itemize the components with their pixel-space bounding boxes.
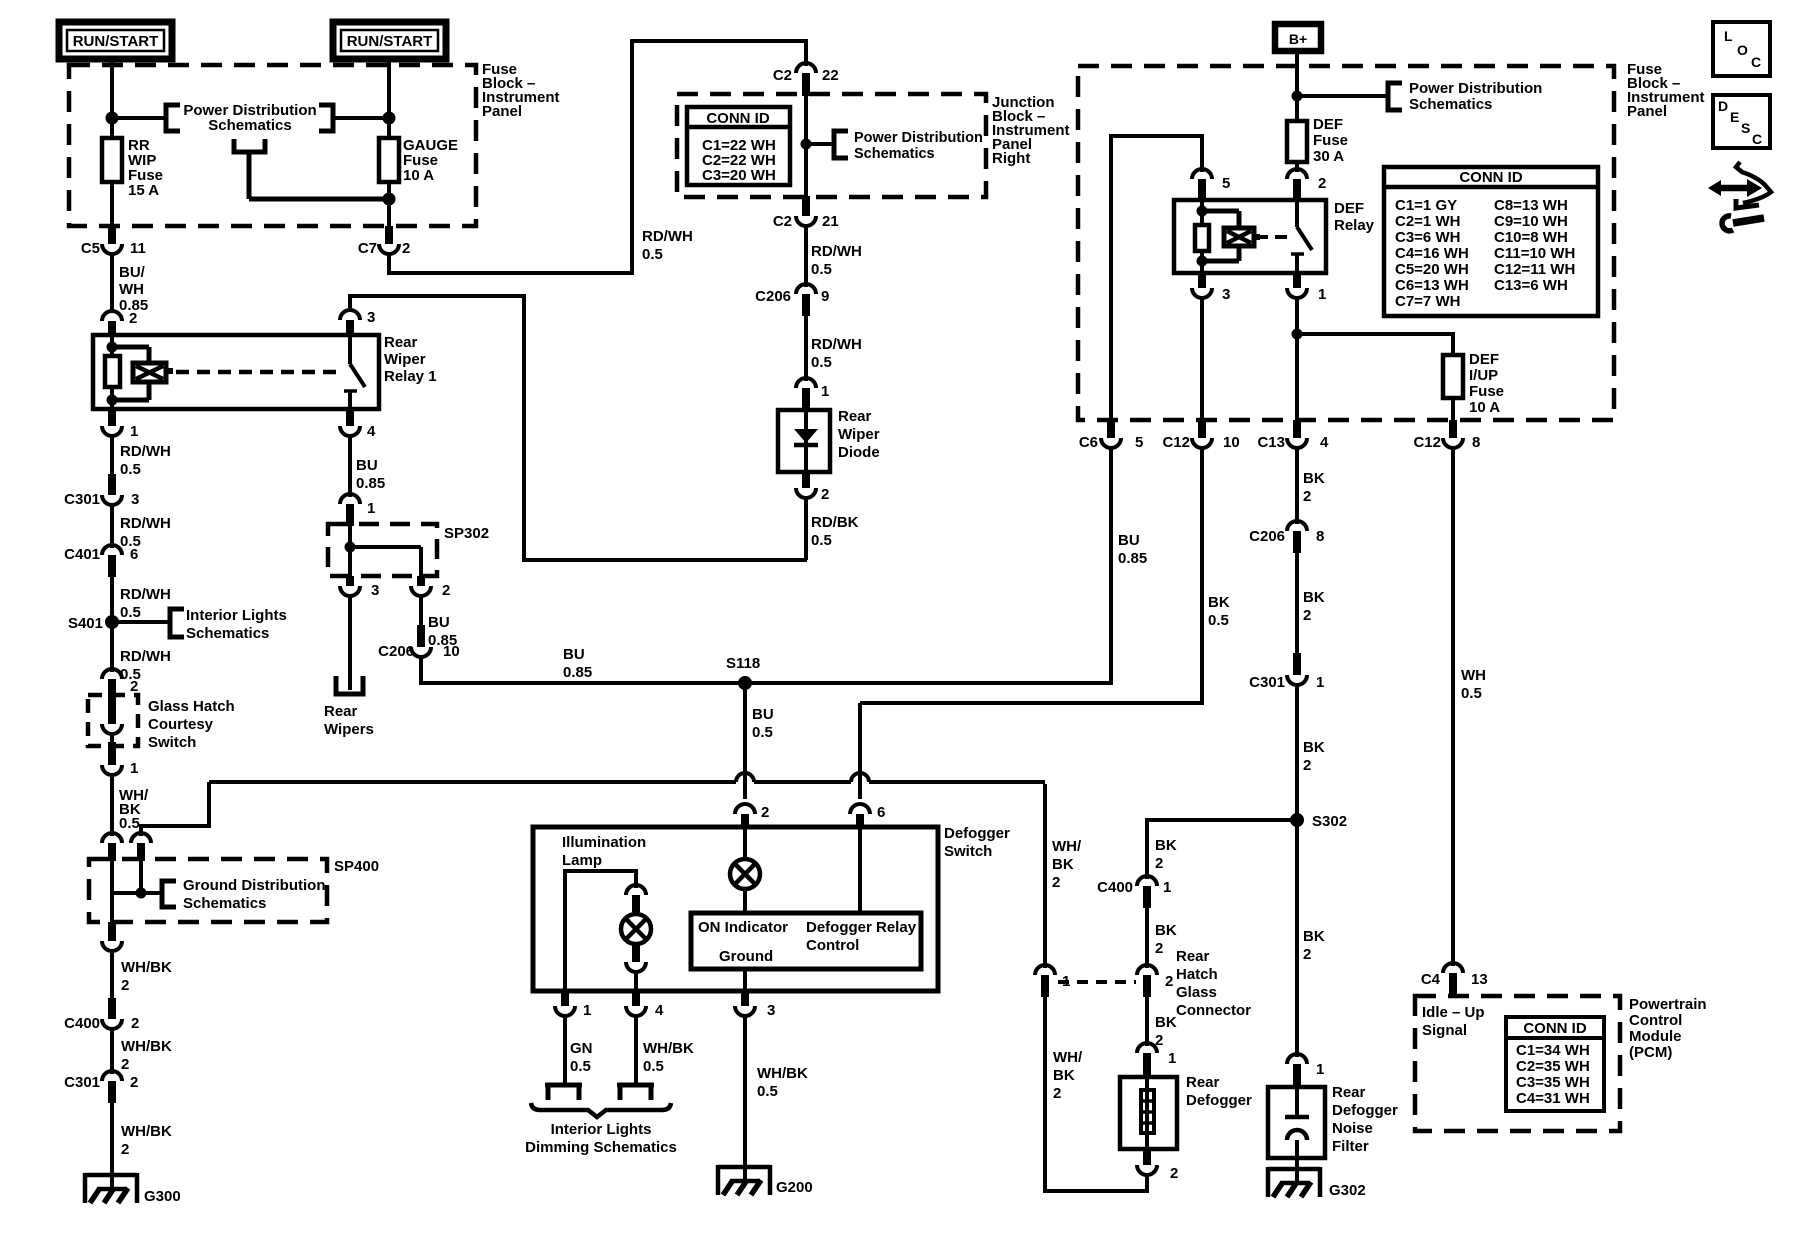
svg-text:C5: C5: [81, 240, 100, 257]
svg-text:0.85: 0.85: [1118, 550, 1147, 567]
wire DEF relay pin 1 down: [1295, 296, 1299, 422]
svg-text:BK: BK: [1052, 856, 1074, 873]
wire C2-22 through junction block: [804, 94, 808, 215]
svg-text:C206: C206: [755, 288, 791, 305]
connector C5 pin 11: [81, 226, 146, 257]
connector DEF relay pin 3: [1192, 273, 1230, 303]
connector rear defogger pin 1: [1137, 1043, 1176, 1078]
relay coil resistor: [105, 356, 120, 387]
label Rear Wipers: [324, 703, 374, 738]
wire rear hatch pin2 to rear defogger: [1145, 997, 1149, 1046]
wire RUN/START2 to GAUGE fuse: [387, 59, 391, 140]
svg-text:2: 2: [130, 678, 138, 695]
svg-text:Switch: Switch: [148, 734, 196, 751]
svg-text:Panel: Panel: [482, 103, 522, 120]
svg-text:C4: C4: [1421, 971, 1441, 988]
svg-text:RD/WH: RD/WH: [642, 228, 693, 245]
label DEF Relay: [1334, 200, 1375, 234]
svg-text:C2: C2: [773, 213, 792, 230]
svg-text:C9=10 WH: C9=10 WH: [1494, 213, 1568, 230]
conn id rows (junction block): [702, 137, 776, 184]
svg-text:Rear: Rear: [1332, 1084, 1366, 1101]
wire C13-4 to C206-8: [1295, 446, 1299, 524]
wire relay pin4 to SP302: [348, 434, 352, 497]
module Powertrain Control Module dashed box: [1415, 996, 1620, 1131]
node SP400 junction dot: [136, 888, 147, 899]
splice SP302 dashed box: [328, 524, 437, 576]
SP400 internal wires: [112, 861, 162, 922]
label SP302: [444, 525, 489, 542]
svg-text:Glass Hatch: Glass Hatch: [148, 698, 235, 715]
svg-text:1: 1: [1316, 1061, 1324, 1078]
svg-text:5: 5: [1135, 434, 1143, 451]
svg-text:Noise: Noise: [1332, 1120, 1373, 1137]
wire splice to DEF I/UP fuse: [1297, 332, 1453, 355]
svg-text:C3=6 WH: C3=6 WH: [1395, 229, 1460, 246]
svg-text:4: 4: [1320, 434, 1329, 451]
svg-text:Schematics: Schematics: [186, 625, 269, 642]
svg-text:WH/BK: WH/BK: [643, 1040, 694, 1057]
svg-text:0.5: 0.5: [757, 1083, 778, 1100]
wire rear defogger pin2 return loop: [1045, 997, 1149, 1193]
svg-text:Filter: Filter: [1332, 1138, 1369, 1155]
svg-text:WH/: WH/: [1053, 1049, 1083, 1066]
connector defogger pin 3: [735, 991, 775, 1019]
wire C206-8 to C301-1: [1295, 553, 1299, 655]
wire junction to left bracket: [112, 116, 166, 120]
bracket left of Power Distribution Schematics (left): [166, 105, 180, 131]
svg-text:2: 2: [761, 804, 769, 821]
svg-text:S: S: [1741, 120, 1750, 136]
wire C7 to C2-22 riser: [387, 39, 806, 275]
label ON Indicator: [698, 919, 788, 936]
svg-text:DEF: DEF: [1469, 351, 1499, 368]
svg-text:S302: S302: [1312, 813, 1347, 830]
svg-text:C4=31 WH: C4=31 WH: [1516, 1090, 1590, 1107]
svg-text:Defogger: Defogger: [1186, 1092, 1252, 1109]
svg-text:0.5: 0.5: [811, 261, 832, 278]
svg-text:C2=35 WH: C2=35 WH: [1516, 1058, 1590, 1075]
svg-text:SP302: SP302: [444, 525, 489, 542]
svg-text:Idle – Up: Idle – Up: [1422, 1004, 1485, 1021]
connector relay pin 4: [340, 409, 376, 440]
svg-text:Rear: Rear: [838, 408, 872, 425]
terminal Rear Wipers: [336, 676, 363, 694]
wire defogger return to rear hatch pin1: [1043, 784, 1047, 968]
terminal interior lights (pin1): [545, 1085, 582, 1100]
svg-text:Fuse: Fuse: [1469, 383, 1504, 400]
wire ON lamp to inner box: [743, 889, 747, 913]
wire bracket to GAUGE fuse feed: [333, 116, 389, 120]
wire ground to defogger pin 3: [743, 969, 747, 991]
label wire BU 0.5: [752, 706, 774, 741]
svg-text:Control: Control: [1629, 1012, 1682, 1029]
svg-text:C: C: [1751, 54, 1761, 70]
svg-text:BU: BU: [752, 706, 774, 723]
svg-text:C3=20 WH: C3=20 WH: [702, 167, 776, 184]
label wire WH/BK 0.5 (pin3): [757, 1065, 808, 1100]
svg-text:C206: C206: [378, 643, 414, 660]
svg-text:2: 2: [821, 486, 829, 503]
hop defogger pin2 wire: [736, 773, 754, 782]
svg-text:G302: G302: [1329, 1182, 1366, 1199]
label wire WH 0.5: [1461, 667, 1486, 702]
label wire BU 0.85 (sp302 pin2): [428, 614, 457, 649]
svg-text:Defogger: Defogger: [944, 825, 1010, 842]
label wire RD/WH 0.5 (a): [120, 443, 171, 478]
relay solenoid branch: [112, 347, 149, 400]
wire S302 branch to C400: [1147, 818, 1297, 879]
svg-text:2: 2: [1318, 175, 1326, 192]
label wire RD/WH 0.5 (c): [120, 586, 171, 621]
svg-text:2: 2: [131, 1015, 139, 1032]
svg-text:10: 10: [443, 643, 460, 660]
rear defogger grid element: [1141, 1077, 1154, 1149]
node B+ splice dot: [1292, 91, 1303, 102]
svg-text:30 A: 30 A: [1313, 148, 1344, 165]
svg-text:Diode: Diode: [838, 444, 880, 461]
DEF relay control dashed link: [1256, 235, 1290, 239]
svg-text:2: 2: [1170, 1165, 1178, 1182]
connector diode pin 1: [796, 378, 829, 411]
connector defogger pin 1: [555, 991, 591, 1019]
wire C301 to C401: [110, 503, 114, 548]
wire C2-21 to C206-9: [804, 224, 808, 287]
ground G200: [718, 1165, 813, 1196]
svg-text:C13=6 WH: C13=6 WH: [1494, 277, 1568, 294]
label wire RD/WH 0.5 (C2-21): [811, 243, 862, 278]
connector relay pin 1: [102, 409, 138, 440]
svg-text:WH/BK: WH/BK: [121, 1038, 172, 1055]
svg-text:8: 8: [1316, 528, 1324, 545]
svg-text:WH/BK: WH/BK: [757, 1065, 808, 1082]
svg-text:BK: BK: [1303, 739, 1325, 756]
node junction dot on RR WIP feed: [106, 112, 119, 125]
wire defogger pin6 to inner box: [858, 829, 862, 913]
svg-text:2: 2: [1155, 940, 1163, 957]
bracket ground distribution schematics: [162, 881, 176, 907]
connector C206 pin 9: [755, 284, 829, 316]
connector C301 pin 2: [64, 1071, 138, 1103]
svg-text:C10=8 WH: C10=8 WH: [1494, 229, 1568, 246]
label Power Distribution Schematics (right): [1409, 80, 1542, 113]
label wire RD/WH 0.5 (b): [120, 515, 171, 550]
label Interior Lights Dimming Schematics: [525, 1121, 677, 1156]
conn id rows (PCM): [1516, 1042, 1590, 1107]
svg-text:2: 2: [121, 977, 129, 994]
label RR WIP Fuse 15 A: [128, 137, 163, 199]
fuse DEF 30A: [1287, 121, 1307, 162]
icon DESC box: [1713, 95, 1770, 148]
svg-text:0.85: 0.85: [563, 664, 592, 681]
svg-text:Ground: Ground: [719, 948, 773, 965]
svg-text:2: 2: [129, 310, 137, 327]
svg-text:C3=35 WH: C3=35 WH: [1516, 1074, 1590, 1091]
svg-text:0.5: 0.5: [570, 1058, 591, 1075]
svg-text:BK: BK: [1155, 922, 1177, 939]
svg-text:2: 2: [1303, 607, 1311, 624]
svg-text:BK: BK: [1155, 1014, 1177, 1031]
label Ground: [719, 948, 773, 965]
label Rear Wiper Relay 1: [384, 334, 437, 385]
wire S401 to interior lights bracket: [112, 620, 170, 624]
svg-text:C401: C401: [64, 546, 100, 563]
node junction dot on GAUGE feed: [383, 112, 396, 125]
node relay coil top junction: [107, 342, 118, 353]
connector C4 pin 13: [1421, 963, 1488, 998]
svg-text:C12: C12: [1162, 434, 1190, 451]
svg-text:21: 21: [822, 213, 839, 230]
label wire WH/BK 2 (return upper): [1052, 838, 1082, 891]
ground G300: [85, 1173, 181, 1205]
label wire WH/BK 2 (a): [121, 959, 172, 994]
connector defogger pin 6: [850, 804, 885, 829]
svg-text:1: 1: [821, 383, 829, 400]
connector C206 pin 8: [1249, 521, 1324, 553]
svg-text:Hatch: Hatch: [1176, 966, 1218, 983]
connector SP302 pin 2: [411, 576, 450, 599]
label wire WH/BK 0.5 (pin4): [643, 1040, 694, 1075]
svg-text:Dimming Schematics: Dimming Schematics: [525, 1139, 677, 1156]
svg-text:RD/WH: RD/WH: [811, 243, 862, 260]
connector rear hatch glass pin 1: [1035, 965, 1070, 997]
DEF relay coil feed: [1200, 200, 1204, 273]
svg-text:0.5: 0.5: [120, 604, 141, 621]
wire DEF fuse to relay pin 2: [1295, 160, 1299, 172]
wire S401 to glass hatch switch: [110, 622, 114, 672]
svg-text:1: 1: [1168, 1050, 1176, 1067]
wire C400-1 to rear hatch pin 2: [1145, 908, 1149, 968]
svg-text:Right: Right: [992, 150, 1030, 167]
wire relay pin1 to C301: [110, 434, 114, 476]
switch Glass Hatch Courtesy Switch dashed box: [88, 695, 138, 746]
wire SP302 pin3 to rear wipers: [348, 594, 352, 690]
wire DEF I/UP fuse to C12-8: [1451, 398, 1455, 422]
svg-text:C400: C400: [1097, 879, 1133, 896]
svg-text:DEF: DEF: [1313, 116, 1343, 133]
svg-text:Rear: Rear: [384, 334, 418, 351]
svg-text:C7: C7: [358, 240, 377, 257]
svg-text:2: 2: [121, 1056, 129, 1073]
svg-text:C12=11 WH: C12=11 WH: [1494, 261, 1575, 278]
connector C206 pin 10: [378, 625, 460, 660]
node SP302 junction dot: [345, 542, 356, 553]
label wire RD/BK 0.5: [811, 514, 859, 549]
connector DEF relay pin 5: [1192, 169, 1230, 201]
fuse GAUGE 10A: [379, 138, 399, 182]
label Fuse Block - Instrument Panel (right): [1627, 61, 1705, 120]
label wire BU 0.85 (relay pin4): [356, 457, 385, 492]
node DEF relay top junction: [1197, 206, 1208, 217]
connector SP400 pin left: [102, 833, 122, 861]
label Glass Hatch Courtesy Switch: [148, 698, 235, 751]
svg-text:3: 3: [371, 582, 379, 599]
fuse block - instrument panel dashed box (left): [69, 65, 476, 226]
svg-text:C5=20 WH: C5=20 WH: [1395, 261, 1469, 278]
svg-text:BK: BK: [1155, 837, 1177, 854]
node S302 splice: [1290, 813, 1347, 830]
svg-text:3: 3: [767, 1002, 775, 1019]
connector SP302 pin 3: [340, 576, 379, 599]
icon LOC box: [1713, 22, 1770, 76]
connector below SP400: [102, 922, 122, 951]
svg-text:WH/BK: WH/BK: [121, 959, 172, 976]
node DEF output splice: [1292, 329, 1303, 340]
svg-text:Interior Lights: Interior Lights: [551, 1121, 652, 1138]
wire S302 to noise filter: [1295, 820, 1299, 1057]
power feed RUN/START box 1: [59, 22, 172, 59]
bracket right of Power Distribution Schematics (left): [319, 105, 333, 131]
svg-text:Power Distribution: Power Distribution: [1409, 80, 1542, 97]
svg-text:2: 2: [130, 1074, 138, 1091]
conn id table (fuse block right): [1384, 167, 1598, 316]
svg-text:RUN/START: RUN/START: [347, 33, 433, 50]
svg-text:BK: BK: [1208, 594, 1230, 611]
label Rear Hatch Glass Connector: [1176, 948, 1251, 1019]
svg-text:C: C: [1752, 131, 1762, 147]
svg-text:BK: BK: [1053, 1067, 1075, 1084]
svg-text:0.5: 0.5: [811, 532, 832, 549]
brace interior lights dimming: [531, 1103, 671, 1117]
label Ground Distribution Schematics: [183, 877, 325, 912]
svg-text:Schematics: Schematics: [854, 146, 935, 162]
svg-text:C2: C2: [773, 67, 792, 84]
SP302 internal wires: [348, 526, 421, 576]
wire defogger return to SP400: [141, 782, 211, 836]
node S118 splice: [726, 655, 760, 690]
svg-text:C206: C206: [1249, 528, 1285, 545]
svg-text:RD/WH: RD/WH: [120, 648, 171, 665]
label Rear Wiper Diode: [838, 408, 880, 461]
wire glass hatch to SP400: [110, 773, 114, 836]
svg-text:WH: WH: [119, 281, 144, 298]
svg-text:C301: C301: [64, 491, 100, 508]
label Interior Lights Schematics: [186, 607, 287, 642]
wire defogger pin4 to terminal: [634, 1014, 638, 1085]
power feed B+ box: [1275, 24, 1321, 51]
svg-text:1: 1: [583, 1002, 591, 1019]
label Illumination Lamp: [562, 834, 646, 869]
svg-text:Switch: Switch: [944, 843, 992, 860]
node DEF relay bottom junction: [1197, 256, 1208, 267]
wire S118 to defogger pin 2: [743, 683, 747, 799]
label wire BU/WH 0.85: [119, 264, 148, 314]
wire RUN/START1 to RR WIP fuse: [110, 59, 114, 140]
wire C301 to G300: [110, 1103, 114, 1190]
svg-text:C13: C13: [1257, 434, 1285, 451]
svg-text:G300: G300: [144, 1188, 181, 1205]
wire C5 to relay pin 2: [110, 252, 114, 312]
svg-text:Illumination: Illumination: [562, 834, 646, 851]
label wire BK 2 (branch upper): [1155, 837, 1177, 872]
connector diode pin 2: [796, 472, 829, 503]
noise filter capacitor: [1285, 1087, 1309, 1184]
defogger switch inner box: [691, 913, 921, 969]
label Rear Defogger Noise Filter: [1332, 1084, 1398, 1155]
label wire GN 0.5: [570, 1040, 593, 1075]
label wire BK 2 (C13-4): [1303, 470, 1325, 505]
svg-text:RD/WH: RD/WH: [120, 586, 171, 603]
conn id rows left (fuse block right): [1395, 197, 1469, 310]
relay switch contact: [344, 335, 365, 409]
connector illumination lamp bottom: [626, 946, 646, 991]
load box Rear Defogger: [1120, 1077, 1177, 1149]
label Power Distribution Schematics (junction block): [854, 130, 983, 162]
svg-text:C11=10 WH: C11=10 WH: [1494, 245, 1575, 262]
svg-text:Courtesy: Courtesy: [148, 716, 214, 733]
relay box DEF Relay: [1174, 200, 1326, 273]
label wire WH/BK 2 (b): [121, 1038, 172, 1073]
svg-text:1: 1: [130, 423, 138, 440]
svg-text:2: 2: [1165, 973, 1173, 990]
node S401 splice: [68, 615, 119, 632]
svg-text:6: 6: [877, 804, 885, 821]
label SP400: [334, 858, 379, 875]
label Idle - Up Signal: [1422, 1004, 1485, 1039]
svg-text:2: 2: [402, 240, 410, 257]
DEF relay solenoid box with X: [1224, 228, 1260, 246]
wire B+ to DEF fuse: [1295, 53, 1299, 121]
svg-text:C301: C301: [1249, 674, 1285, 691]
label DEF I/UP Fuse 10 A: [1469, 351, 1504, 416]
label Rear Defogger: [1186, 1074, 1252, 1109]
svg-text:Defogger Relay: Defogger Relay: [806, 919, 917, 936]
svg-text:WH/: WH/: [1052, 838, 1082, 855]
wire to right bracket: [1297, 94, 1388, 98]
node relay coil bottom junction: [107, 395, 118, 406]
wire C6-5 to S118: [1109, 446, 1113, 685]
svg-text:0.5: 0.5: [1208, 612, 1229, 629]
node junction dot GAUGE fuse lower feed: [383, 193, 396, 206]
connector rear hatch glass pin 2: [1137, 965, 1173, 997]
svg-text:BK: BK: [1303, 589, 1325, 606]
connector C12 pin 8: [1413, 420, 1480, 451]
label DEF Fuse 30 A: [1313, 116, 1348, 165]
wire GAUGE fuse to C7: [387, 182, 391, 228]
label Defogger Switch: [944, 825, 1010, 860]
wire C400 to C301: [110, 1027, 114, 1074]
svg-text:C400: C400: [64, 1015, 100, 1032]
svg-text:Connector: Connector: [1176, 1002, 1251, 1019]
label Defogger Relay Control: [806, 919, 917, 954]
splice SP400 dashed box: [89, 859, 327, 922]
svg-text:2: 2: [121, 1141, 129, 1158]
relay solenoid box with X: [133, 363, 173, 382]
power distribution stub symbol below text: [234, 139, 389, 199]
svg-text:BU/: BU/: [119, 264, 146, 281]
svg-text:RD/BK: RD/BK: [811, 514, 859, 531]
connector C301 pin 3: [64, 474, 139, 508]
glass hatch switch contact: [102, 697, 122, 742]
DEF relay solenoid branch: [1202, 211, 1239, 261]
connector relay pin 2: [102, 310, 137, 336]
wire C401 to S401: [110, 577, 114, 622]
svg-text:0.5: 0.5: [119, 815, 140, 832]
connector C2 pin 21: [773, 196, 839, 230]
svg-text:L: L: [1724, 28, 1733, 44]
wire C6 riser to relay pin 5: [1109, 134, 1202, 420]
svg-text:Rear: Rear: [1176, 948, 1210, 965]
svg-text:2: 2: [1303, 757, 1311, 774]
connector C400 pin 2: [64, 998, 139, 1032]
connector relay pin 3: [340, 309, 375, 336]
bracket power distribution (right): [1388, 83, 1402, 110]
svg-text:Fuse: Fuse: [1313, 132, 1348, 149]
svg-text:4: 4: [367, 423, 376, 440]
fuse block - instrument panel dashed box (right): [1078, 66, 1614, 420]
fuse RR WIP 15A: [102, 138, 122, 182]
label wire BK 2 (hatch lower): [1155, 1014, 1177, 1049]
